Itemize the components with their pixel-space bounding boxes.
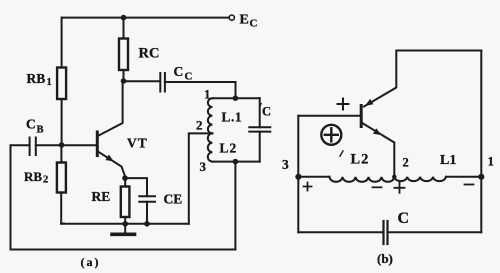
svg-text:VT: VT bbox=[127, 136, 148, 151]
capacitor CE bbox=[139, 196, 155, 202]
svg-text:2: 2 bbox=[43, 175, 48, 186]
svg-text:(b): (b) bbox=[377, 251, 393, 266]
plus sign above base bbox=[338, 99, 349, 110]
capacitor C (a) bbox=[249, 98, 270, 161]
svg-text:L2: L2 bbox=[220, 141, 238, 156]
svg-text:C: C bbox=[398, 210, 410, 227]
svg-text:RC: RC bbox=[139, 46, 160, 62]
phase indicator circle + bbox=[321, 125, 341, 145]
minus at L2 right bbox=[373, 186, 382, 188]
svg-text:L.1: L.1 bbox=[222, 110, 243, 125]
wire: base lead (b) bbox=[298, 115, 360, 117]
svg-text:1: 1 bbox=[47, 77, 52, 88]
tick near L2 label bbox=[340, 151, 343, 156]
junction: node 2 (b) bbox=[392, 175, 396, 179]
svg-text:CE: CE bbox=[164, 192, 183, 207]
svg-text:C: C bbox=[26, 117, 36, 132]
svg-text:RE: RE bbox=[92, 189, 111, 204]
svg-text:L1: L1 bbox=[440, 153, 456, 168]
svg-text:3: 3 bbox=[200, 159, 207, 174]
svg-text:2: 2 bbox=[403, 156, 409, 170]
wire: bottom rail (a) bbox=[11, 249, 236, 251]
polarity marks (b) bbox=[304, 151, 474, 193]
resistor RE bbox=[121, 178, 130, 224]
plus at node 3 bbox=[304, 183, 312, 191]
svg-text:RB: RB bbox=[24, 169, 42, 184]
plus at node 2 bbox=[395, 183, 405, 193]
label RB2 bbox=[24, 169, 48, 186]
wire: bottom rail (b) bbox=[298, 231, 383, 233]
wire: L1 to node 1 bbox=[446, 176, 481, 178]
label RB1 bbox=[27, 71, 52, 88]
junction: node 1 bbox=[233, 95, 239, 101]
svg-text:B: B bbox=[37, 125, 44, 136]
junction: emitter node bbox=[122, 175, 128, 181]
junction: CE bottom bbox=[144, 221, 150, 227]
wire: right edge (b) bbox=[480, 51, 482, 233]
svg-text:3: 3 bbox=[282, 157, 289, 172]
wire: top rail (b) bbox=[397, 50, 481, 52]
inductor L2 (b) bbox=[330, 177, 395, 182]
wire: collector lead (b) bbox=[364, 51, 396, 107]
label EC bbox=[240, 13, 258, 30]
junction: node 1 (b) bbox=[478, 174, 484, 180]
svg-text:C: C bbox=[262, 105, 271, 119]
capacitor CB bbox=[30, 138, 36, 156]
inductor L1 (b) bbox=[394, 177, 446, 181]
wire: tap node 2 to ground rail bbox=[189, 133, 213, 223]
svg-text:RB: RB bbox=[27, 71, 46, 86]
wire: left edge (b) bbox=[297, 116, 299, 233]
wire: collector node to CC bbox=[124, 80, 159, 82]
inductor L1 (a) bbox=[208, 98, 213, 133]
svg-text:C: C bbox=[185, 71, 193, 83]
inductor L2 (a) bbox=[208, 133, 213, 161]
svg-text:(a): (a) bbox=[81, 255, 101, 269]
wire: node3 to L2 bbox=[298, 176, 329, 178]
label CB bbox=[26, 117, 44, 136]
junction: top rail / RC bbox=[121, 15, 127, 21]
svg-text:L2: L2 bbox=[351, 152, 370, 168]
transistor (b) emitter bbox=[362, 123, 394, 177]
svg-text:C: C bbox=[250, 18, 258, 30]
svg-text:C: C bbox=[174, 64, 184, 79]
transistor VT bbox=[97, 81, 125, 178]
resistor RC bbox=[119, 18, 128, 81]
ground bbox=[112, 224, 135, 234]
svg-text:1: 1 bbox=[488, 154, 495, 169]
wire: CE bottom lead bbox=[146, 202, 148, 224]
svg-text:1: 1 bbox=[204, 87, 211, 102]
svg-text:2: 2 bbox=[196, 118, 203, 133]
junction: collector node bbox=[121, 78, 127, 84]
minus at node 1 bbox=[465, 184, 474, 186]
wire: tank bottom bbox=[212, 161, 259, 163]
svg-text:E: E bbox=[240, 13, 249, 28]
junction: base node bbox=[59, 142, 65, 148]
junction: node 3 (b) bbox=[295, 174, 301, 180]
capacitor CC bbox=[160, 73, 165, 92]
wire: emitter ground rail bbox=[61, 223, 189, 225]
junction: node 3 bbox=[233, 159, 239, 165]
resistor RB1 bbox=[57, 18, 66, 145]
wire: emitter node to CE bbox=[125, 178, 147, 196]
capacitor C (b) bbox=[384, 221, 388, 244]
wire: left loop from CB down to bottom bbox=[11, 145, 30, 249]
wire: CC to tank node 1 bbox=[165, 82, 236, 98]
arrow: collector current bbox=[365, 99, 374, 106]
wire: node 3 down to bottom rail bbox=[234, 162, 236, 250]
wire: top supply rail (a) bbox=[62, 17, 229, 19]
transistor (b) base bar bbox=[360, 106, 363, 127]
junction: RE bottom bbox=[122, 221, 128, 227]
resistor RB2 bbox=[57, 145, 66, 224]
tick mark near C (a) bbox=[260, 103, 262, 107]
wire: CB to base node bbox=[36, 144, 96, 146]
terminal EC bbox=[229, 15, 234, 20]
wire: tank top bbox=[212, 97, 259, 99]
label CC bbox=[174, 64, 193, 83]
